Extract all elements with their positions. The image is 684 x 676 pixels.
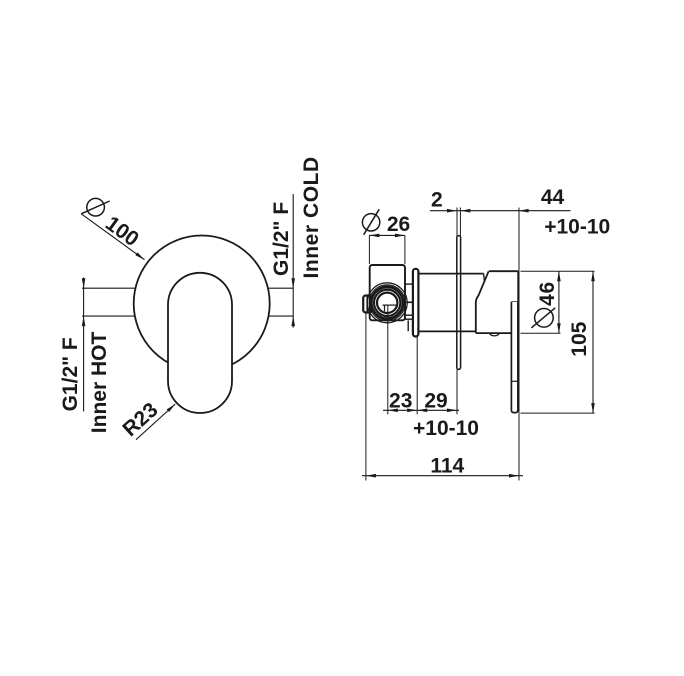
dim 23/29 — [383, 409, 459, 411]
svg-text:Inner HOT: Inner HOT — [88, 332, 111, 434]
dim 2 / 44 line — [430, 210, 571, 212]
svg-text:23: 23 — [389, 389, 412, 412]
dim 2 arrows — [447, 209, 457, 213]
dim leader R23 — [136, 404, 175, 440]
body top edge — [418, 273, 483, 275]
svg-text:G1/2" F: G1/2" F — [59, 337, 82, 411]
dim 114 — [362, 475, 523, 477]
svg-text:+10-10: +10-10 — [544, 216, 610, 239]
svg-text:29: 29 — [424, 389, 447, 412]
diameter symbol of Ø26 — [362, 214, 379, 231]
cold inlet extension lines (right) — [268, 194, 293, 328]
dim leader Ø100 — [81, 214, 144, 260]
dim 105 — [521, 412, 595, 414]
inlet tab (left) — [363, 296, 372, 313]
hub cone diagonal — [476, 271, 489, 333]
lever blade — [511, 302, 518, 413]
svg-text:105: 105 — [568, 321, 591, 356]
svg-text:46: 46 — [536, 281, 559, 306]
escutcheon circle Ø100 — [134, 236, 270, 372]
hot inlet extension lines (left) — [82, 278, 136, 412]
mounting flange — [413, 269, 419, 337]
diameter symbol of Ø46 — [535, 309, 554, 328]
hub bottom edge — [476, 332, 512, 334]
dim 44 arrow — [519, 209, 529, 213]
svg-text:G1/2" F: G1/2" F — [270, 202, 293, 276]
hub step — [511, 301, 518, 303]
dim Ø26 — [369, 234, 405, 236]
ext line center — [387, 305, 389, 414]
hot inlet arrows — [82, 278, 86, 288]
dim Ø46 — [521, 270, 595, 272]
cartridge nut details — [369, 284, 413, 331]
rough-in block — [370, 265, 405, 320]
diameter symbol of Ø100 — [87, 198, 105, 216]
cold inlet arrows — [291, 278, 295, 288]
hub top edge — [489, 270, 518, 272]
svg-text:44: 44 — [541, 186, 565, 209]
svg-text:2: 2 — [431, 189, 443, 212]
body bottom edge — [418, 330, 475, 332]
svg-text:+10-10: +10-10 — [413, 417, 479, 440]
lever handle pill R23 — [168, 273, 232, 413]
svg-text:Inner COLD: Inner COLD — [300, 156, 323, 278]
set screw bump — [490, 333, 499, 336]
wall plate — [457, 236, 461, 370]
lever seam — [511, 380, 518, 382]
plate extension lines — [456, 208, 458, 237]
ext line plate bottom — [456, 369, 458, 414]
cartridge outline circle (behind) — [367, 283, 407, 323]
svg-text:26: 26 — [387, 213, 410, 236]
svg-text:114: 114 — [430, 454, 464, 477]
hub right edge — [517, 271, 519, 302]
inlet hole details — [383, 304, 397, 306]
hub seam sliver — [484, 274, 485, 282]
ext line flange — [416, 337, 418, 415]
ext line tab left — [365, 313, 367, 481]
inlet rings — [371, 287, 403, 319]
ext line lever face — [518, 208, 520, 481]
